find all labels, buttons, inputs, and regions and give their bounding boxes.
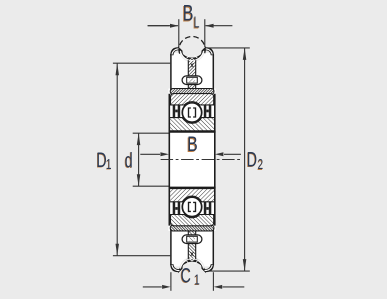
rope cross-section (dashed) [179,36,205,53]
dim d extension top [133,132,169,134]
dim D1 extension top [113,62,170,64]
groove lip left (bottom) [171,265,182,272]
svg-text:B: B [187,132,197,156]
cusp braid (bottom) [191,253,193,256]
ball (top) [182,103,201,122]
rim wall left (top) [170,54,172,92]
bearing face line right [214,94,216,226]
bore surface (bottom) [169,187,216,189]
cage section (top) [189,108,196,117]
dim C1 extension left [170,272,172,291]
bearing outer ring (top) [171,94,214,105]
dim d [138,133,140,186]
dim C1 extension right [212,272,214,291]
rim wall right (top) [212,54,214,92]
svg-text:B: B [183,2,194,26]
bearing inner ring (bottom) [169,189,215,202]
rivet boss (bottom) [182,235,202,244]
svg-text:d: d [125,149,133,172]
ball (bottom) [182,197,201,216]
dim B right [224,153,241,155]
svg-text:D: D [247,148,257,171]
svg-text:C: C [181,264,191,287]
wheel body white fill [170,53,214,266]
dim D2 extension top [208,47,250,49]
rim wall left (bottom) [170,227,172,265]
groove lip left (top) [171,48,182,55]
svg-text:L: L [194,13,200,31]
dim B_L [148,25,170,27]
seal right (bottom) [209,201,212,215]
groove lip right (bottom) [202,265,214,272]
cage section (bottom) [189,202,196,211]
bearing inner ring (top) [169,118,215,131]
rim wall right (bottom) [212,227,214,265]
seal right (top) [209,105,212,119]
dim C1 [143,286,162,288]
dim D2 [244,48,246,271]
svg-text:1: 1 [106,156,112,172]
dim D1 extension bottom [113,255,170,257]
rim crown band (top) [170,89,214,95]
svg-text:2: 2 [258,156,264,172]
rim crown band (bottom) [170,225,214,231]
centre line [161,159,241,161]
seal left (top) [173,105,176,119]
cusp braid (top) [191,64,193,67]
bearing outer ring (bottom) [171,215,214,226]
dim B_L extension lines [178,19,180,47]
dim D2 extension bottom [208,270,250,272]
dim B left [140,153,160,155]
rim groove shell + stem (bottom) [179,257,205,283]
rim groove shell + stem (top) [179,36,205,62]
rivet boss (top) [182,76,202,85]
bore surface (top) [169,131,216,133]
svg-text:1: 1 [194,272,200,288]
seal left (bottom) [173,201,176,215]
dim d extension bottom [133,185,169,187]
bearing face line left [168,94,170,226]
groove lip right (top) [202,48,214,55]
dim D1 [116,63,118,255]
